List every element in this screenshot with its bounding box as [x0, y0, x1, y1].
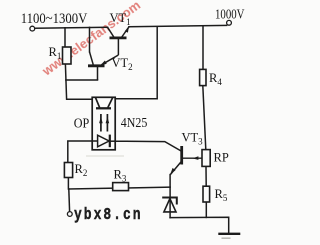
wire rail down to opto right pin — [115, 27, 157, 99]
wire down to bottom terminal — [68, 189, 71, 212]
optocoupler OP 4N25 box — [92, 97, 115, 150]
wire input rail — [35, 27, 108, 28]
svg-text:1100~1300V: 1100~1300V — [21, 11, 88, 27]
potentiometer RP — [182, 150, 210, 167]
resistor R3 — [113, 183, 129, 191]
opto light arrows — [99, 114, 109, 132]
resistor R5 — [203, 186, 210, 202]
wire R2 bottom junction run to zener — [68, 178, 170, 190]
transistor VT3 — [170, 146, 181, 175]
opto phototransistor — [96, 98, 113, 109]
resistor R2 — [64, 163, 72, 178]
terminal output — [227, 20, 232, 25]
transistor VT2 — [88, 52, 118, 80]
wire rail to R4 — [202, 26, 204, 70]
wire VT3 emitter down to zener — [169, 175, 171, 218]
wire opto LED cathode to VT3 collector — [115, 141, 181, 151]
wire RP to R5 — [205, 166, 207, 186]
zener diode — [162, 198, 177, 212]
wire drop to R1 — [64, 28, 66, 47]
terminal bottom left — [67, 212, 72, 217]
ground — [218, 233, 240, 235]
svg-text:4N25: 4N25 — [121, 115, 148, 130]
terminal input — [30, 26, 35, 31]
wire opto LED anode to R2 — [68, 141, 92, 163]
red watermark www.elecfans.com — [39, 0, 144, 79]
wire R1 bottom down to opto corner — [65, 64, 92, 99]
svg-text:1000V: 1000V — [215, 7, 245, 22]
wire bottom rail to ground — [170, 217, 229, 233]
wire VT2 collector to rail — [89, 27, 91, 51]
svg-text:ybx8.cn: ybx8.cn — [74, 207, 143, 225]
transistor VT1 — [108, 26, 130, 55]
wire R1 branch to VT2 base — [66, 79, 98, 81]
svg-text:OP: OP — [74, 117, 90, 132]
wire R4 to RP — [203, 85, 206, 149]
watermark ybx8.cn — [86, 155, 124, 157]
resistor R4 — [200, 69, 206, 85]
wire R5 to bottom rail — [205, 202, 207, 217]
wire output rail — [129, 25, 227, 26]
resistor R1 — [63, 47, 72, 64]
svg-text:RP: RP — [214, 151, 229, 165]
opto LED — [92, 135, 115, 148]
